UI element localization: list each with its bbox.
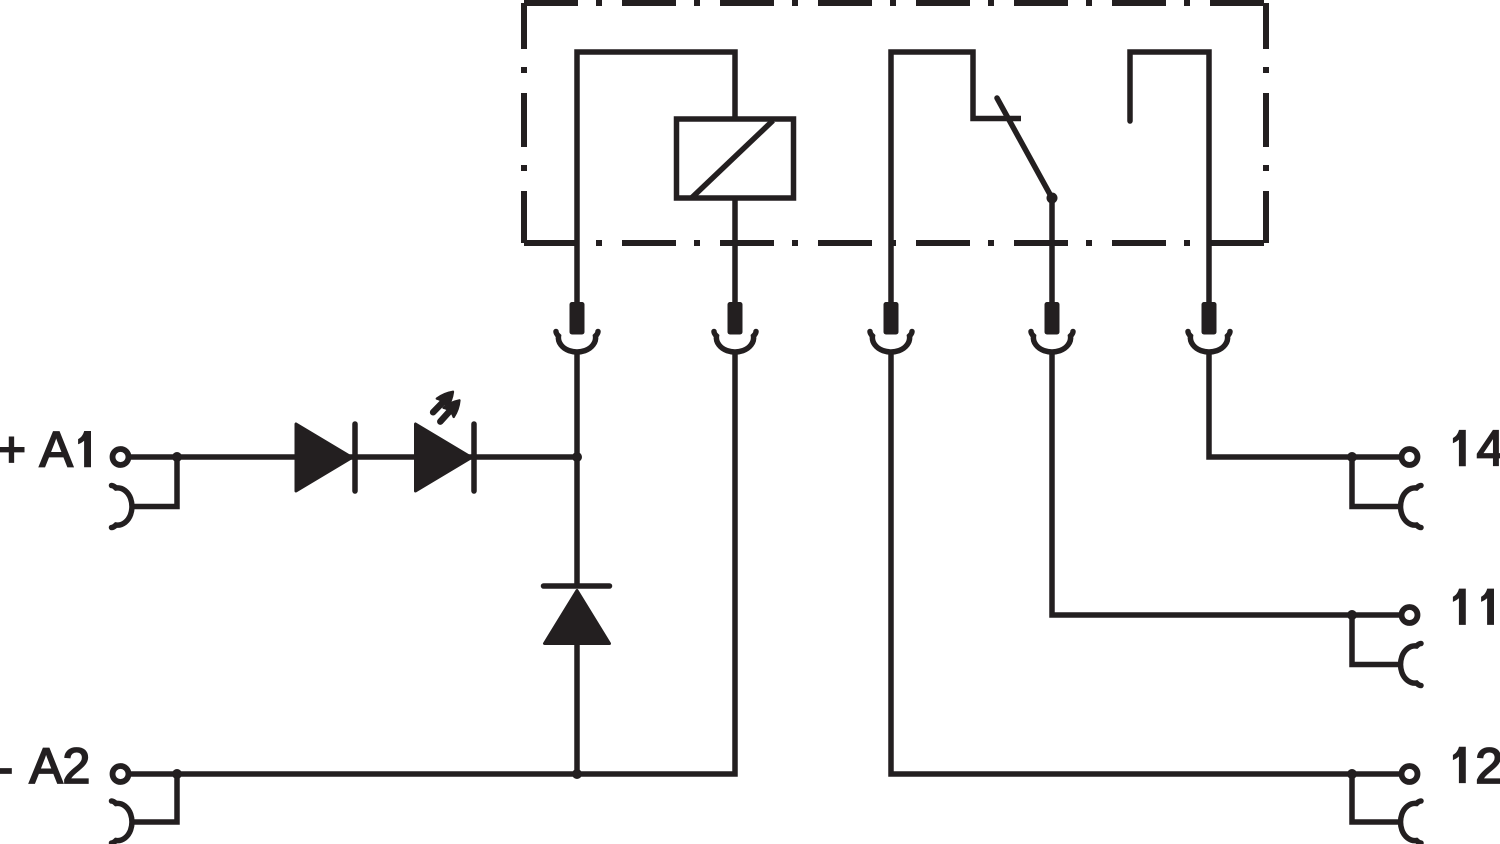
svg-text:A: A: [40, 422, 74, 478]
svg-text:A: A: [29, 738, 63, 794]
svg-text:2: 2: [63, 738, 91, 794]
svg-text:4: 4: [1477, 421, 1500, 477]
svg-text:-: -: [0, 740, 13, 796]
svg-text:+: +: [0, 421, 26, 477]
svg-text:2: 2: [1475, 738, 1500, 794]
